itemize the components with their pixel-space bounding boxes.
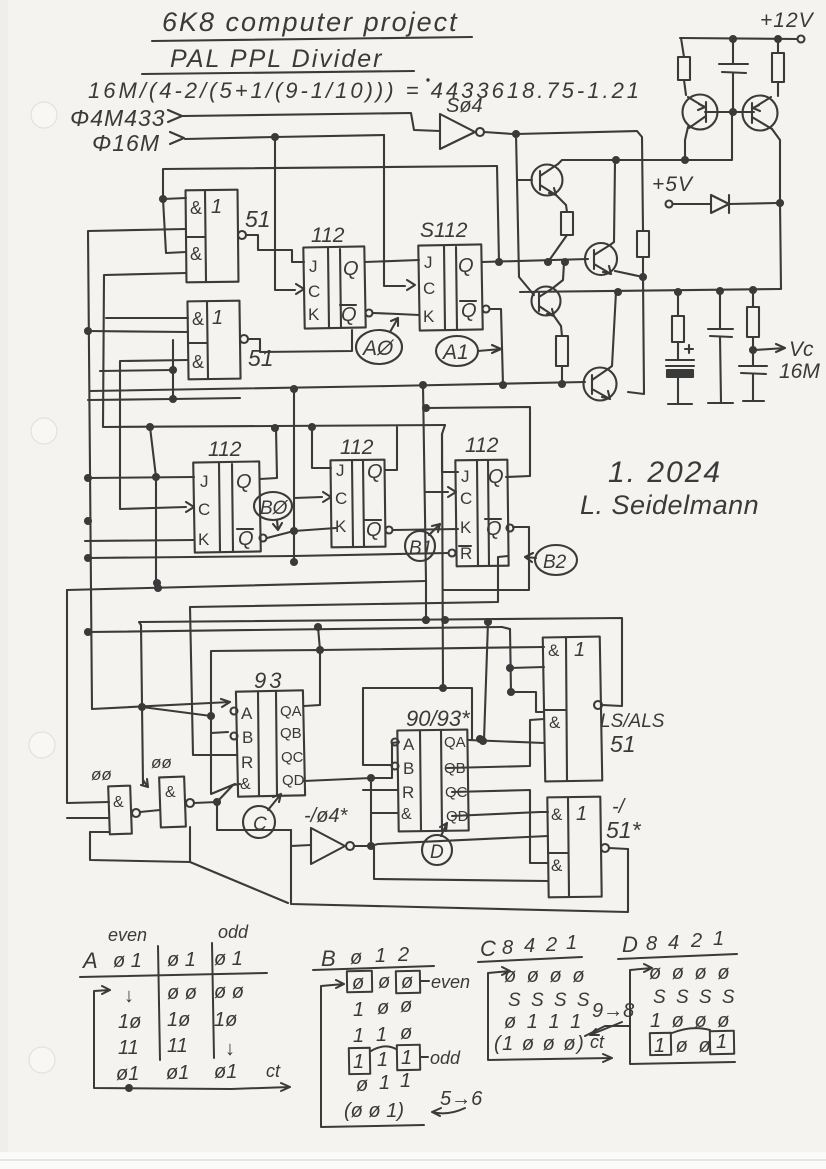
inverter S04 <box>440 114 475 149</box>
node x488 y622 <box>485 619 491 625</box>
node Qb emitter <box>640 274 646 280</box>
FF4 Qbar bubble <box>386 527 393 534</box>
svg-text:ø: ø <box>356 1074 368 1096</box>
table D row4 box b <box>710 1031 734 1054</box>
flipflop FF5 112 box <box>455 460 508 567</box>
node x88 y331 <box>85 328 91 334</box>
terminal +12V <box>798 36 805 43</box>
wire 9093 QA to gateC pins <box>468 740 544 743</box>
wire U1 pin stub2 <box>163 199 186 253</box>
svg-text:51: 51 <box>245 206 271 232</box>
FF2 Qbar bubble <box>483 306 490 313</box>
capacitor C2 electrolytic plus <box>685 345 693 353</box>
svg-text:J: J <box>200 472 209 491</box>
svg-text:1: 1 <box>401 1047 412 1069</box>
wire rail y291 <box>520 289 781 292</box>
wire U3 input <box>291 845 311 846</box>
table B row1 even tick <box>421 980 429 982</box>
svg-text:even: even <box>431 972 470 992</box>
wire FF4 J from above <box>312 427 331 468</box>
punch hole 4 <box>29 1047 55 1073</box>
wire Qa collector up <box>555 164 558 166</box>
svg-text:Q: Q <box>343 258 359 280</box>
svg-text:B1: B1 <box>409 538 432 559</box>
table A header underline <box>80 973 267 977</box>
svg-text:QC: QC <box>281 749 304 766</box>
svg-text:C: C <box>335 489 347 508</box>
wire S04 output <box>484 132 513 134</box>
wire 16M to S112 clock <box>384 135 405 286</box>
svg-text:&: & <box>551 856 563 875</box>
svg-text:ø 1: ø 1 <box>214 948 243 970</box>
resistor R1 <box>678 57 690 80</box>
ground C3 <box>708 402 733 404</box>
svg-text:B: B <box>403 759 414 778</box>
svg-text:ø: ø <box>378 971 390 993</box>
svg-text:ø1: ø1 <box>116 1063 139 1085</box>
wire U4 output loop <box>139 618 622 784</box>
svg-text:8: 8 <box>646 933 657 955</box>
svg-text:&: & <box>551 805 563 824</box>
svg-text:ø: ø <box>400 995 412 1017</box>
wire N2 out to 93 amp <box>194 784 240 803</box>
table B row4 box b <box>397 1045 420 1070</box>
counter 9093 dividers <box>420 731 442 831</box>
wire y427 right end to FF5 J <box>442 425 458 472</box>
FF5 divider <box>477 461 489 565</box>
table D bracket <box>630 964 735 1064</box>
circle C <box>243 806 275 838</box>
svg-text:ø1: ø1 <box>214 1061 237 1083</box>
wire 93 QD out <box>304 778 371 781</box>
node x318 y627 <box>315 624 321 630</box>
vertical x190 to 93 R <box>190 607 237 755</box>
wire x423 down from rail384 <box>423 385 426 581</box>
svg-text:4: 4 <box>524 935 535 957</box>
svg-text:ø ø ø ø: ø ø ø ø <box>504 965 587 987</box>
node x442 y688 <box>440 685 446 691</box>
wire U2 pin1 from left <box>106 317 188 319</box>
wire y399 run <box>88 398 240 400</box>
wire FF3 K from left <box>85 540 194 541</box>
wire QD93 down to inv out run <box>370 778 372 846</box>
wire FF4 clock stub <box>294 497 322 498</box>
wire U2 output step <box>248 330 352 352</box>
svg-text:even: even <box>108 925 147 945</box>
9093 input bubble B <box>392 763 399 770</box>
svg-text:&: & <box>113 794 124 811</box>
node y618 x426 <box>423 617 429 623</box>
svg-text:QA: QA <box>444 734 466 751</box>
nand N2 bubble <box>186 799 194 807</box>
capacitor C4 <box>739 366 767 374</box>
wire Qc collector up to Qwire <box>553 263 564 288</box>
resistor R4 <box>747 307 759 337</box>
wire R3 to C2 <box>677 342 679 360</box>
resistor Ra <box>561 212 573 235</box>
FF3 clock wedge <box>186 502 194 512</box>
svg-text:R: R <box>402 783 414 802</box>
node gate U1 in <box>160 196 166 202</box>
flipflop FF3 112 box <box>193 461 261 552</box>
gate U4 divider <box>566 638 567 780</box>
node Ra join <box>545 259 551 265</box>
svg-text:øø: øø <box>91 765 112 784</box>
node rail384 a <box>291 386 297 392</box>
wire FF2 Q out <box>482 259 588 262</box>
node x88 y558 <box>85 555 91 561</box>
wire 93 A input arrow <box>92 699 230 709</box>
diode D1 <box>711 195 729 213</box>
node y649 x320 <box>317 647 323 653</box>
wire U1 pin1 <box>163 198 186 199</box>
wire C1 top lead <box>732 39 734 64</box>
vertical x488 <box>484 622 488 740</box>
svg-text:1: 1 <box>377 1049 388 1071</box>
svg-text:1: 1 <box>566 932 577 954</box>
svg-text:1 ø ø: 1 ø ø <box>654 1035 713 1057</box>
node S04 out <box>513 131 519 137</box>
svg-text:6K8 computer project: 6K8 computer project <box>162 7 459 37</box>
FF3 Qbar bubble <box>260 535 267 542</box>
svg-text:Sø4: Sø4 <box>446 95 483 117</box>
wire U5 output <box>609 848 628 849</box>
wire U2 pin2 <box>88 331 188 332</box>
svg-text:↓: ↓ <box>124 985 134 1007</box>
svg-text:QD: QD <box>282 772 305 789</box>
vertical x510 gateC feed <box>510 629 511 692</box>
svg-text:1: 1 <box>574 639 585 661</box>
svg-text:1: 1 <box>713 928 724 950</box>
node rail291 b <box>675 289 681 295</box>
svg-text:9→8: 9→8 <box>592 1000 634 1022</box>
svg-text:J: J <box>424 253 433 272</box>
punch hole 2 <box>31 418 57 444</box>
ellipse B0 <box>254 492 292 520</box>
FF5 Rbar bubble <box>449 550 456 557</box>
input arrow 16M <box>170 132 184 144</box>
wire FF1 Qbar to S112 K <box>373 313 419 315</box>
wire C4 bottom lead <box>752 374 754 401</box>
svg-text:Φ4M433: Φ4M433 <box>70 105 166 131</box>
svg-text:A1: A1 <box>441 341 469 364</box>
node x88 y521 <box>85 518 91 524</box>
svg-text:&: & <box>548 641 560 660</box>
gate U1 AOI 51 box <box>186 190 239 283</box>
gate U5 crossbar <box>548 852 568 854</box>
wire Qb collector up <box>610 161 615 245</box>
wire nand out node down <box>217 802 291 830</box>
svg-text:S S S S: S S S S <box>653 987 737 1008</box>
transistor Q2 <box>743 96 778 131</box>
ellipse A0 <box>356 330 402 364</box>
svg-text:L. Seidelmann: L. Seidelmann <box>580 490 759 520</box>
svg-text:2: 2 <box>690 930 702 952</box>
node y427 c <box>309 424 315 430</box>
wire R1 top lead <box>681 38 684 57</box>
wire run y558 down b2 area <box>425 581 427 620</box>
svg-text:ø ø: ø ø <box>167 982 197 1004</box>
arrow A0 <box>390 318 398 332</box>
wire 16M run <box>185 135 384 139</box>
svg-text:LS/ALS: LS/ALS <box>600 711 665 732</box>
svg-text:A: A <box>81 948 98 973</box>
wire QA loop tap to run y630 <box>318 627 320 650</box>
wire +12V rail <box>680 38 797 39</box>
flipflop FF1 112 box <box>303 246 365 328</box>
wire FF1 Q to S112 J <box>365 260 419 262</box>
svg-text:J: J <box>336 461 345 480</box>
table C bracket <box>488 967 612 1062</box>
svg-text:11: 11 <box>167 1035 188 1057</box>
node rail384 b <box>420 382 426 388</box>
svg-text:Q: Q <box>236 471 252 493</box>
svg-text:J: J <box>309 257 318 276</box>
node y427 a <box>147 424 153 430</box>
wire FF4 Qbar to FF5 K <box>393 529 458 530</box>
FF5 Qbar bubble <box>507 525 514 532</box>
svg-text:1. 2024: 1. 2024 <box>608 456 722 489</box>
svg-text:C: C <box>198 500 210 519</box>
wire S04 node down to Qa base and Qc base <box>516 134 534 295</box>
svg-text:B: B <box>242 728 253 747</box>
wire run y607 <box>190 556 508 607</box>
wire run y590 <box>67 581 426 590</box>
svg-text:K: K <box>335 517 347 536</box>
svg-text:1: 1 <box>211 196 222 218</box>
wire 9093 QC to gate D <box>452 790 548 863</box>
wire R2 top lead <box>777 39 779 53</box>
wire U3 out loop to gate D pin2 <box>374 846 548 881</box>
FF5 clock wedge <box>448 487 456 497</box>
svg-text:&: & <box>401 806 412 823</box>
flipflop FF4 112 box <box>330 460 385 548</box>
svg-text:&: & <box>190 244 202 264</box>
wire FF4 Q loop up <box>385 427 397 470</box>
svg-text:PAL PPL Divider: PAL PPL Divider <box>170 45 383 73</box>
svg-text:1: 1 <box>353 999 364 1021</box>
svg-text:Q: Q <box>367 461 383 483</box>
svg-text:S S S S: S S S S <box>508 990 592 1011</box>
title underline 2 <box>142 71 414 74</box>
svg-text:↓: ↓ <box>225 1038 235 1060</box>
wire left loop x67 to N1 <box>67 590 109 803</box>
wire R2 bottom lead <box>777 82 779 96</box>
table D row4 arc <box>672 1028 710 1033</box>
wire diode to rail <box>729 203 778 204</box>
gate U4 LSALS51 box <box>543 637 603 782</box>
svg-text:C: C <box>423 279 435 298</box>
svg-text:1: 1 <box>400 1070 411 1092</box>
wire Ra bottom to Q wire <box>548 235 567 262</box>
svg-text:K: K <box>460 518 472 537</box>
wire N1 out to N2 <box>140 810 160 812</box>
node FF5 Q loop <box>423 405 429 411</box>
node 12V a <box>775 36 781 42</box>
svg-text:odd: odd <box>218 922 249 942</box>
node 12V b <box>730 36 736 42</box>
svg-text:ø 1: ø 1 <box>113 950 142 972</box>
wire A to B branch <box>142 707 228 733</box>
vertical x442 <box>442 434 443 688</box>
counter 93 box <box>236 690 305 796</box>
svg-text:&: & <box>192 352 204 372</box>
table B row4 arc <box>371 1046 396 1051</box>
wire R4 top lead <box>752 290 754 307</box>
flipflop FF2 S112 box <box>418 244 482 330</box>
svg-text:16M/(4-2/(5+1/(9-1/10))) = 443: 16M/(4-2/(5+1/(9-1/10))) = 4433618.75-1.… <box>88 78 642 103</box>
table C header underline <box>478 957 582 962</box>
svg-text:&: & <box>192 309 204 329</box>
arrow B1 <box>429 524 440 535</box>
node rail291 d <box>750 287 756 293</box>
svg-text:Q: Q <box>461 300 477 322</box>
svg-text:Q: Q <box>341 304 357 326</box>
svg-text:ct: ct <box>266 1061 281 1081</box>
svg-text:5→6: 5→6 <box>440 1088 483 1110</box>
svg-text:øø: øø <box>151 753 172 772</box>
wire FF3 Qbar to FF4 K <box>267 528 336 538</box>
node Qbar B0 <box>291 528 297 534</box>
punch hole 1 <box>31 102 57 128</box>
svg-text:J: J <box>461 467 470 486</box>
node x510 y668 <box>507 665 513 671</box>
node A run x142 <box>139 704 145 710</box>
svg-text:B2: B2 <box>543 552 567 573</box>
FF1 Qbar overline <box>340 304 356 306</box>
wire 9093 loop QA to B <box>363 688 472 765</box>
svg-text:Φ16M: Φ16M <box>92 130 160 156</box>
transistor Qd <box>584 368 617 401</box>
svg-text:Q: Q <box>366 519 382 541</box>
arrow 9to8 <box>590 1022 622 1035</box>
wire C3 top lead <box>719 291 721 329</box>
svg-text:D: D <box>430 842 444 863</box>
node base join <box>730 109 736 115</box>
wire N1 bottom loop <box>90 827 190 862</box>
wire C4 top lead <box>752 350 754 366</box>
svg-text:1: 1 <box>375 945 386 967</box>
ellipse B2 <box>535 545 577 575</box>
node x173 y399 <box>170 396 176 402</box>
svg-text:16M: 16M <box>779 360 820 383</box>
capacitor C1 <box>719 64 748 73</box>
svg-text:BØ: BØ <box>260 498 289 519</box>
ground C2 <box>668 403 692 405</box>
svg-text:1: 1 <box>376 1024 387 1046</box>
ground C4 <box>743 400 764 402</box>
node rail384 c <box>500 382 506 388</box>
svg-text:C: C <box>253 814 267 835</box>
9093 input bubble A <box>392 739 399 746</box>
svg-text:112: 112 <box>208 438 242 461</box>
gate U1 divider <box>186 191 206 281</box>
wire N1 input 2 <box>67 817 109 819</box>
arrow A1 <box>478 345 501 353</box>
table A column bar 2 <box>212 943 214 1058</box>
terminal +5V <box>666 201 673 208</box>
svg-text:112: 112 <box>340 436 374 459</box>
wire S04 to Rb branch <box>516 131 643 231</box>
svg-text:QB: QB <box>280 725 302 742</box>
svg-text:B: B <box>321 946 336 971</box>
wire FF3 J from left <box>88 477 194 478</box>
wire U3 out <box>354 845 371 847</box>
node y618 x445 <box>442 617 448 623</box>
arrow B0 <box>273 520 282 530</box>
svg-text:C: C <box>460 489 472 508</box>
svg-text:ø: ø <box>350 947 362 969</box>
FF3 Qbar overline <box>237 528 253 530</box>
counter 93 dividers <box>258 692 277 795</box>
93 input bubble B <box>231 733 238 740</box>
table D connector from C <box>585 1026 630 1036</box>
wire Qc emitter to Rc <box>554 316 562 336</box>
svg-text:&: & <box>165 784 176 801</box>
node x173 y370 <box>170 367 176 373</box>
svg-text:K: K <box>423 307 435 326</box>
FF4 Qbar overline <box>365 519 381 521</box>
svg-text:-/ø4*: -/ø4* <box>304 805 349 827</box>
wire FF3 Q loop up <box>260 428 277 479</box>
svg-text:1: 1 <box>379 1072 390 1094</box>
resistor Rb <box>637 231 649 257</box>
wire x502 down to gateC pins <box>502 627 510 629</box>
FF1 clock wedge <box>296 284 304 294</box>
FF4 divider <box>352 461 364 547</box>
svg-text:93: 93 <box>254 668 284 693</box>
svg-text:11: 11 <box>118 1037 139 1059</box>
node 9093 QA <box>477 736 483 742</box>
node Vc <box>750 347 756 353</box>
gate U2 divider <box>188 302 208 378</box>
nand N1 bubble <box>132 809 140 817</box>
FF1 Qbar bubble <box>366 310 373 317</box>
wire U2 pin3 <box>120 360 188 508</box>
FF3 divider <box>219 463 233 552</box>
svg-text:112: 112 <box>465 434 499 457</box>
wire R3 top lead <box>677 292 679 316</box>
wire Q2 collector down long <box>772 129 781 289</box>
wire Rc bottom <box>561 366 563 384</box>
wire 9093 QB to gateC <box>447 719 544 768</box>
svg-text:odd: odd <box>430 1048 461 1068</box>
gate U4 output bubble <box>594 701 602 709</box>
resistor Rc <box>556 336 568 366</box>
wire 9093 amp stub <box>371 812 398 814</box>
FF5 Qbar overline <box>485 518 501 520</box>
inverter U3 bubble <box>346 842 354 850</box>
svg-text:1: 1 <box>353 1025 364 1047</box>
svg-text:ø 1: ø 1 <box>167 949 196 971</box>
svg-text:ø 1 1 1: ø 1 1 1 <box>504 1011 584 1033</box>
node rail291 a <box>615 289 621 295</box>
node N2 out <box>214 799 220 805</box>
input arrow 4M433 <box>168 110 182 122</box>
wire Qd collector up <box>608 292 616 369</box>
svg-text:&: & <box>240 776 251 793</box>
wire Qa base stub <box>517 179 532 181</box>
node inv out join <box>368 843 374 849</box>
table D row4 box a <box>650 1033 671 1055</box>
svg-text:+12V: +12V <box>760 9 815 32</box>
svg-text:Q: Q <box>238 528 254 550</box>
node QA feed <box>480 738 486 744</box>
node Qc collector <box>562 259 568 265</box>
transistor Q1 <box>683 95 718 130</box>
wire 5V to diode <box>673 203 711 205</box>
inverter S04 output bubble <box>476 128 484 136</box>
